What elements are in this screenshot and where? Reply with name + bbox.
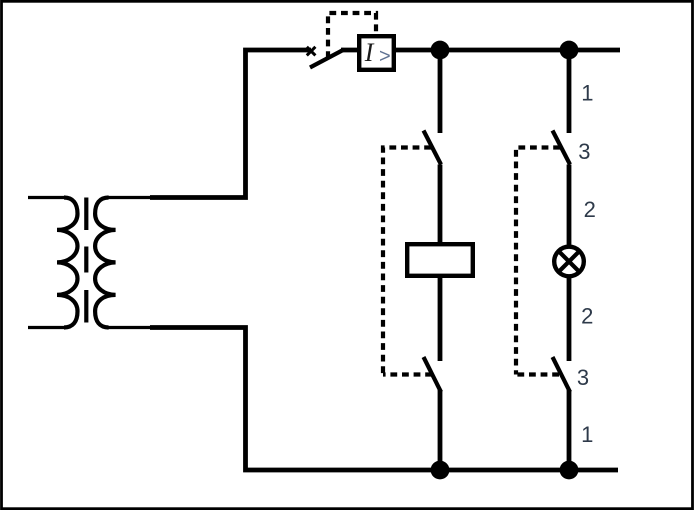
svg-text:3: 3 (578, 139, 590, 164)
svg-text:>: > (379, 45, 391, 67)
svg-text:1: 1 (581, 80, 593, 105)
svg-text:2: 2 (584, 197, 596, 222)
svg-text:3: 3 (577, 365, 589, 390)
svg-text:2: 2 (581, 304, 593, 329)
svg-text:1: 1 (581, 422, 593, 447)
svg-text:I: I (364, 38, 375, 67)
